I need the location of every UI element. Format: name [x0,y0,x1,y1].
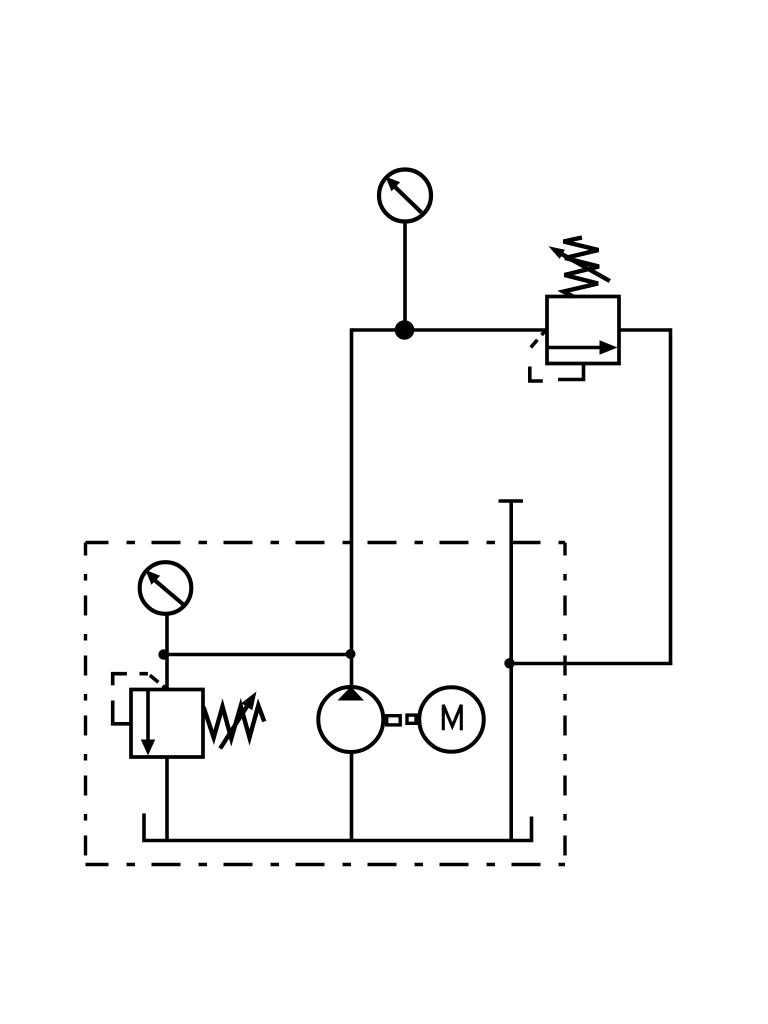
wire return horizontal [510,662,672,666]
motor M1 label [443,705,461,731]
wire left vertical to pump [350,328,354,687]
pressure gauge PG2 [140,562,192,614]
wire gauge to pump horizontal [167,653,352,657]
wire gauge PG1 stem [403,222,407,330]
wire right vertical [669,328,673,665]
tank T1 [144,814,532,841]
wire T-line down to tank [509,501,513,841]
relief valve V2 adjustment arrow [220,707,247,749]
relief valve V2 spring [204,706,265,739]
relief valve V2 body [131,690,203,758]
pump P1 flow triangle [338,687,365,701]
wire gauge PG2 stem [165,614,169,690]
relief valve V1 pilot line (dashed) [530,331,552,382]
enclosure dashed boundary left [84,543,87,865]
pressure gauge PG1 [379,170,431,222]
node A junction dot [395,320,415,340]
plugged line T-cap [499,499,524,503]
wire V2 drain to tank [165,757,169,841]
node pump junction dot [346,649,356,659]
relief valve V1 spring [564,238,600,297]
wire main horizontal to relief valve [352,328,547,332]
enclosure dashed boundary top [86,541,566,544]
node C junction dot [504,658,514,668]
relief valve V2 pilot line (dashed) [113,674,166,724]
relief valve V1 body [547,297,619,364]
relief valve V2 flow arrow [146,690,150,742]
motor M1 [419,687,484,752]
node B junction dot [158,649,168,659]
enclosure dashed boundary bottom [86,863,566,866]
relief valve V1 drain tab [558,364,584,380]
relief valve V1 adjustment arrow [562,254,610,281]
pump P1 [318,687,383,752]
enclosure dashed boundary right [563,543,566,865]
coupling shaft [387,716,401,725]
wire valve outlet right [619,328,671,332]
relief valve V1 flow arrow [547,346,602,350]
wire pump to tank [350,752,354,841]
